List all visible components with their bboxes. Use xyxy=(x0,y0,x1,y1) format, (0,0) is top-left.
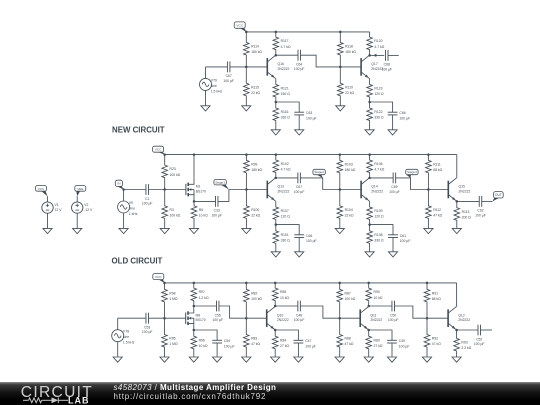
svg-text:68 kΩ: 68 kΩ xyxy=(432,297,441,301)
wire C61 to ground xyxy=(392,238,394,252)
node M1 source xyxy=(193,200,196,203)
capacitor C53 xyxy=(142,313,153,334)
node rail junction at R102 xyxy=(275,153,278,156)
resistor R115 xyxy=(244,67,261,106)
svg-text:100 µF: 100 µF xyxy=(142,201,153,205)
svg-text:V1: V1 xyxy=(55,203,59,207)
svg-text:C48: C48 xyxy=(296,313,302,317)
node M8 source xyxy=(193,329,196,332)
svg-text:100 kΩ: 100 kΩ xyxy=(170,214,181,218)
svg-text:-12 V: -12 V xyxy=(84,208,93,212)
svg-text:R108: R108 xyxy=(374,233,382,237)
svg-text:IN: IN xyxy=(117,182,120,186)
capacitor C48 xyxy=(294,301,305,322)
svg-text:100 kΩ: 100 kΩ xyxy=(251,297,262,301)
power label VCC (old) xyxy=(153,274,165,283)
ground xyxy=(422,357,431,362)
svg-text:R119: R119 xyxy=(345,85,353,89)
wire Q11 collector to C50 xyxy=(369,305,392,307)
wire Q14 collector to C69 xyxy=(370,177,393,179)
svg-text:R118: R118 xyxy=(345,45,353,49)
svg-text:100 µF: 100 µF xyxy=(294,67,305,71)
svg-text:12 V: 12 V xyxy=(55,208,63,212)
capacitor C66 xyxy=(388,111,410,120)
svg-text:C53: C53 xyxy=(144,326,150,330)
ground xyxy=(160,228,169,233)
voltage source V2 with VEE tag xyxy=(75,186,86,202)
svg-text:68 kΩ: 68 kΩ xyxy=(433,168,442,172)
svg-text:R87: R87 xyxy=(345,291,351,295)
wire C33 up to Stage1 node xyxy=(218,190,267,202)
capacitor C64 xyxy=(294,50,305,71)
resistor R90 xyxy=(366,283,383,306)
wire C69 to stage3 base (jog) xyxy=(396,178,449,190)
svg-text:1.2 kΩ: 1.2 kΩ xyxy=(199,296,209,300)
svg-text:R101: R101 xyxy=(281,233,289,237)
wire Q15 emitter to C62 xyxy=(457,200,479,202)
node Q15 emitter output xyxy=(456,200,459,203)
svg-text:C66: C66 xyxy=(306,234,312,238)
node base divider junction (stage2 new) xyxy=(339,66,342,69)
node Q11 collector xyxy=(367,305,370,308)
wire V9 to ground xyxy=(123,213,125,228)
node Stage1 xyxy=(214,180,229,190)
svg-text:Q11: Q11 xyxy=(370,313,376,317)
wire M1 source to C33 xyxy=(194,200,215,202)
svg-text:Stage1: Stage1 xyxy=(215,180,225,184)
svg-text:C63: C63 xyxy=(306,111,312,115)
ground xyxy=(189,357,198,362)
svg-text:R109: R109 xyxy=(374,209,382,213)
svg-text:OLD CIRCUIT: OLD CIRCUIT xyxy=(112,257,163,266)
node rail junction at R111 xyxy=(427,153,430,156)
ground xyxy=(213,357,222,362)
svg-text:47 kΩ: 47 kΩ xyxy=(345,342,354,346)
resistor R114 xyxy=(244,32,263,67)
node rail junction at R87 xyxy=(338,282,341,285)
wire VT8 to C53 xyxy=(118,317,146,319)
capacitor C67 xyxy=(294,173,305,194)
wire VCC rail (new) xyxy=(246,31,369,33)
svg-text:4.7 kΩ: 4.7 kΩ xyxy=(281,45,291,49)
svg-text:100 µF: 100 µF xyxy=(475,213,486,217)
svg-text:R84: R84 xyxy=(280,338,286,342)
wire C63 to ground xyxy=(298,115,300,130)
node base divider junction (input) xyxy=(163,188,166,191)
resistor R107 xyxy=(273,201,290,224)
svg-text:Q15: Q15 xyxy=(459,185,466,189)
svg-text:100 kΩ: 100 kΩ xyxy=(345,297,356,301)
node rail junction at R91 xyxy=(426,282,429,285)
wire M8 drain to C55 xyxy=(194,305,217,307)
capacitor C63 xyxy=(294,111,316,120)
svg-text:1 kHz: 1 kHz xyxy=(129,212,138,216)
node rail junction at M1 drain xyxy=(193,153,196,156)
svg-text:R83: R83 xyxy=(251,337,257,341)
svg-text:C33: C33 xyxy=(214,209,220,213)
ground xyxy=(452,228,461,233)
ground xyxy=(189,228,198,233)
wire C54 to ground xyxy=(216,343,218,357)
capacitor C54 xyxy=(212,339,234,348)
svg-text:R114: R114 xyxy=(251,45,259,49)
wire C68 output xyxy=(388,54,399,56)
svg-text:R117: R117 xyxy=(281,39,289,43)
svg-text:100 µF: 100 µF xyxy=(294,190,305,194)
wire C62 to OUT xyxy=(482,200,493,202)
wire VT9 to C67 xyxy=(206,66,228,68)
wire V1 to ground xyxy=(47,213,49,228)
wire collector to C68 xyxy=(370,54,385,56)
capacitor C62 xyxy=(475,196,486,217)
wire Q12 collector to rail xyxy=(456,283,458,307)
ground xyxy=(452,357,461,362)
node Q14 collector xyxy=(368,177,371,180)
resistor R101 xyxy=(273,225,290,252)
svg-text:1.5 kHz: 1.5 kHz xyxy=(211,89,223,93)
svg-text:R93: R93 xyxy=(461,341,467,345)
svg-text:2N2222: 2N2222 xyxy=(459,189,471,193)
svg-text:100 µF: 100 µF xyxy=(400,239,411,243)
node rail junction at R103 xyxy=(339,153,342,156)
capacitor C49 xyxy=(387,339,409,348)
wire C64 to stage2 base (jog) xyxy=(301,55,362,67)
svg-text:100 µF: 100 µF xyxy=(388,318,399,322)
svg-text:Stage3: Stage3 xyxy=(407,170,417,174)
ground xyxy=(271,130,280,135)
svg-text:R120: R120 xyxy=(374,39,382,43)
ground xyxy=(242,228,251,233)
node base divider junction (old input) xyxy=(163,317,166,320)
resistor R113 xyxy=(454,201,471,228)
svg-text:100 kΩ: 100 kΩ xyxy=(170,173,181,177)
transistor Q15 xyxy=(448,178,470,202)
node Q16 collector xyxy=(275,54,278,57)
svg-text:C52: C52 xyxy=(476,337,482,341)
svg-text:C55: C55 xyxy=(215,313,221,317)
svg-text:Q13: Q13 xyxy=(278,185,285,189)
node IN xyxy=(115,180,123,189)
svg-text:1 MΩ: 1 MΩ xyxy=(169,297,178,301)
svg-text:VT8: VT8 xyxy=(123,330,129,334)
resistor R118 xyxy=(338,32,357,67)
power label VCC (new circuit) xyxy=(234,22,246,32)
wire Q15 collector to rail xyxy=(456,155,458,178)
svg-text:R82: R82 xyxy=(251,291,257,295)
svg-text:OUT: OUT xyxy=(495,193,502,197)
node base divider junction (stage2 mid) xyxy=(339,188,342,191)
svg-text:10 kΩ: 10 kΩ xyxy=(374,296,383,300)
ground xyxy=(160,357,169,362)
node Q10 collector xyxy=(274,305,277,308)
ground xyxy=(73,228,82,233)
node base divider junction (stage3 mid) xyxy=(427,188,430,191)
node rail junction at R97 xyxy=(193,282,196,285)
wire C66 to ground xyxy=(298,238,300,252)
transistor Q16 xyxy=(267,55,289,79)
svg-text:sine: sine xyxy=(211,84,217,88)
node stray junction on collector wire xyxy=(374,54,377,57)
voltage source VT8 wires xyxy=(117,318,119,330)
capacitor C68 xyxy=(381,50,392,71)
node OUT xyxy=(493,192,504,202)
svg-text:100 µF: 100 µF xyxy=(399,116,410,120)
svg-text:R100: R100 xyxy=(251,208,259,212)
node rail junction at R23 xyxy=(163,153,166,156)
svg-text:C62: C62 xyxy=(477,209,483,213)
ground xyxy=(271,357,280,362)
svg-text:330 Ω: 330 Ω xyxy=(374,116,384,120)
voltage source V1 with VCC tag xyxy=(36,186,48,202)
svg-text:Q12: Q12 xyxy=(458,313,465,317)
svg-text:C69: C69 xyxy=(391,185,397,189)
node Q11 emitter xyxy=(367,329,370,332)
node base divider junction (old stage4) xyxy=(426,317,429,320)
ground xyxy=(365,252,374,257)
svg-text:22 kΩ: 22 kΩ xyxy=(251,214,260,218)
capacitor C55 xyxy=(212,301,223,322)
node rail junction at R118 xyxy=(339,31,342,34)
ground xyxy=(271,252,280,257)
svg-text:120 Ω: 120 Ω xyxy=(281,215,291,219)
svg-text:C68: C68 xyxy=(384,63,390,67)
transistor M8 xyxy=(186,306,206,330)
wire C48 to stage3 base (jog) xyxy=(301,306,361,318)
resistor R93 xyxy=(454,330,472,357)
node rail junction at R85 xyxy=(274,282,277,285)
resistor R116 xyxy=(273,102,290,130)
svg-text:4.7 kΩ: 4.7 kΩ xyxy=(374,45,384,49)
svg-text:2.2 kΩ: 2.2 kΩ xyxy=(461,346,471,350)
ground xyxy=(364,357,373,362)
wire VCC rail (middle) xyxy=(165,154,457,156)
svg-text:R90: R90 xyxy=(374,290,380,294)
ground xyxy=(295,130,304,135)
svg-text:VCC: VCC xyxy=(155,275,162,279)
ground xyxy=(424,228,433,233)
svg-text:100 µF: 100 µF xyxy=(381,67,392,71)
svg-text:330 Ω: 330 Ω xyxy=(374,239,384,243)
svg-text:Q17: Q17 xyxy=(371,62,378,66)
ground xyxy=(335,357,344,362)
node base divider junction (stage1 new) xyxy=(245,66,248,69)
resistor R104 xyxy=(337,190,354,229)
svg-text:Q14: Q14 xyxy=(371,185,378,189)
ground xyxy=(336,106,345,111)
svg-text:R121: R121 xyxy=(281,87,289,91)
CircuitLab logo xyxy=(10,382,110,405)
svg-text:100 µF: 100 µF xyxy=(306,239,317,243)
svg-text:330 Ω: 330 Ω xyxy=(281,239,291,243)
svg-text:VCC: VCC xyxy=(38,187,45,191)
svg-text:V9: V9 xyxy=(129,201,133,205)
svg-text:M8: M8 xyxy=(196,313,201,317)
wire emitter junction to C66 xyxy=(370,102,393,112)
resistor R6 xyxy=(191,201,208,228)
node rail junction at R98 xyxy=(163,282,166,285)
wire Q10 emitter to C47 xyxy=(275,330,298,340)
voltage source V2 xyxy=(72,202,94,213)
capacitor C67 xyxy=(223,62,234,83)
transistor Q10 xyxy=(267,306,289,330)
svg-text:120 Ω: 120 Ω xyxy=(374,92,384,96)
svg-text:47 kΩ: 47 kΩ xyxy=(432,342,441,346)
svg-text:V2: V2 xyxy=(84,203,88,207)
svg-text:sine: sine xyxy=(123,335,129,339)
resistor R85 xyxy=(272,283,289,306)
wire M1 drain to rail xyxy=(193,155,195,178)
wire VT8 to ground xyxy=(117,342,119,357)
node IN junction xyxy=(122,188,125,191)
wire C53 to M8 gate xyxy=(149,317,186,319)
svg-text:2N2222: 2N2222 xyxy=(278,189,290,193)
footer bar xyxy=(0,382,540,405)
voltage source VT9 wires xyxy=(205,67,207,79)
svg-text:C67: C67 xyxy=(296,185,302,189)
transistor Q13 xyxy=(267,178,289,202)
svg-text:1.5 kHz: 1.5 kHz xyxy=(123,341,135,345)
node Q13 collector xyxy=(275,177,278,180)
ground xyxy=(242,357,251,362)
resistor R120 xyxy=(367,32,385,56)
svg-text:22 kΩ: 22 kΩ xyxy=(251,91,260,95)
resistor R112 xyxy=(426,190,443,229)
svg-text:NEW CIRCUIT: NEW CIRCUIT xyxy=(112,126,165,135)
resistor R95 xyxy=(162,318,178,357)
svg-text:2N2222: 2N2222 xyxy=(370,318,382,322)
svg-text:Stage2: Stage2 xyxy=(314,170,324,174)
resistor R98 xyxy=(162,283,178,318)
wire VT9 to ground xyxy=(205,90,207,105)
svg-text:27 kΩ: 27 kΩ xyxy=(374,344,383,348)
ground xyxy=(388,130,397,135)
svg-text:100 µF: 100 µF xyxy=(142,330,153,334)
node Q10 emitter xyxy=(274,329,277,332)
resistor R106 xyxy=(367,155,385,178)
svg-text:180 kΩ: 180 kΩ xyxy=(251,50,262,54)
svg-text:R6: R6 xyxy=(199,208,203,212)
svg-text:R123: R123 xyxy=(374,87,382,91)
svg-text:R89: R89 xyxy=(374,338,380,342)
svg-text:LAB: LAB xyxy=(68,396,90,405)
node base divider junction (stage1 mid) xyxy=(245,188,248,191)
resistor R92 xyxy=(424,318,441,357)
node emitter junction (stage1 new) xyxy=(275,101,278,104)
svg-text:R85: R85 xyxy=(280,290,286,294)
svg-text:R98: R98 xyxy=(169,291,175,295)
resistor R3 xyxy=(162,190,181,229)
wire emitter junction to C66 xyxy=(276,225,299,235)
svg-text:100 µF: 100 µF xyxy=(389,190,400,194)
resistor R84 xyxy=(272,330,289,357)
svg-text:VEE: VEE xyxy=(77,187,83,191)
node emitter junction (stage2 mid) xyxy=(368,223,371,226)
svg-text:100 µF: 100 µF xyxy=(399,344,410,348)
svg-text:100 µF: 100 µF xyxy=(474,342,485,346)
svg-text:C1: C1 xyxy=(145,197,149,201)
svg-text:100 µF: 100 µF xyxy=(224,344,235,348)
capacitor C66 xyxy=(294,234,316,243)
resistor R89 xyxy=(366,330,383,357)
ground xyxy=(201,106,210,111)
resistor R91 xyxy=(424,283,441,318)
wire M8 source to C54 xyxy=(194,330,217,340)
ground xyxy=(113,357,122,362)
voltage source V1 xyxy=(42,202,62,213)
node Q12 emitter output xyxy=(455,329,458,332)
node M8 drain xyxy=(193,305,196,308)
ground xyxy=(119,228,128,233)
svg-text:100 µF: 100 µF xyxy=(223,79,234,83)
svg-text:22 kΩ: 22 kΩ xyxy=(345,214,354,218)
svg-text:C50: C50 xyxy=(390,313,396,317)
svg-text:180 kΩ: 180 kΩ xyxy=(345,168,356,172)
wire emitter junction to C61 xyxy=(370,225,393,235)
resistor R87 xyxy=(337,283,356,318)
svg-text:R102: R102 xyxy=(281,162,289,166)
svg-text:1 MΩ: 1 MΩ xyxy=(169,342,178,346)
svg-text:VT9: VT9 xyxy=(211,78,217,82)
wire C50 to stage4 base (jog) xyxy=(395,306,449,318)
svg-text:R116: R116 xyxy=(281,110,289,114)
resistor R123 xyxy=(367,79,384,102)
capacitor C1 xyxy=(142,184,153,205)
svg-text:BS170: BS170 xyxy=(196,318,206,322)
wire C1 to M1 gate xyxy=(149,189,186,191)
svg-text:200 Ω: 200 Ω xyxy=(462,215,472,219)
svg-text:VCC: VCC xyxy=(236,24,243,28)
transistor Q11 xyxy=(360,306,382,330)
svg-text:R92: R92 xyxy=(432,337,438,341)
svg-text:R23: R23 xyxy=(170,167,176,171)
resistor R117 xyxy=(273,32,291,55)
resistor R122 xyxy=(367,102,384,130)
node rail junction at R117 xyxy=(275,31,278,34)
wire C67 to Q16 base xyxy=(230,66,267,68)
transistor Q17 xyxy=(361,55,383,79)
transistor Q12 xyxy=(448,306,470,330)
node emitter junction (stage1 mid) xyxy=(275,223,278,226)
svg-text:R95: R95 xyxy=(169,337,175,341)
svg-text:C47: C47 xyxy=(305,339,311,343)
svg-text:R3: R3 xyxy=(170,208,174,212)
voltage source V9 wires xyxy=(123,190,125,202)
node Stage2 xyxy=(313,169,325,178)
node Q17 collector xyxy=(368,54,371,57)
svg-text:120 Ω: 120 Ω xyxy=(374,215,384,219)
svg-text:R103: R103 xyxy=(345,162,353,166)
svg-text:R88: R88 xyxy=(345,337,351,341)
wire collector to C64 xyxy=(276,54,298,56)
svg-text:VCC: VCC xyxy=(155,148,162,152)
svg-text:2N2222: 2N2222 xyxy=(371,189,383,193)
svg-text:R115: R115 xyxy=(251,85,259,89)
ground xyxy=(295,252,304,257)
resistor R111 xyxy=(426,155,443,190)
resistor R119 xyxy=(338,67,355,106)
transistor M1 xyxy=(186,178,206,202)
svg-text:10 kΩ: 10 kΩ xyxy=(199,214,208,218)
wire emitter junction to C63 xyxy=(276,102,299,112)
svg-text:R113: R113 xyxy=(462,210,470,214)
svg-text:27 kΩ: 27 kΩ xyxy=(280,344,289,348)
ground xyxy=(387,357,396,362)
svg-text:2N2222: 2N2222 xyxy=(278,67,290,71)
svg-text:R97: R97 xyxy=(199,290,205,294)
wire C55 to stage2 base (jog) xyxy=(219,306,267,318)
wire C52 output xyxy=(481,329,492,331)
svg-text:47 kΩ: 47 kΩ xyxy=(433,214,442,218)
